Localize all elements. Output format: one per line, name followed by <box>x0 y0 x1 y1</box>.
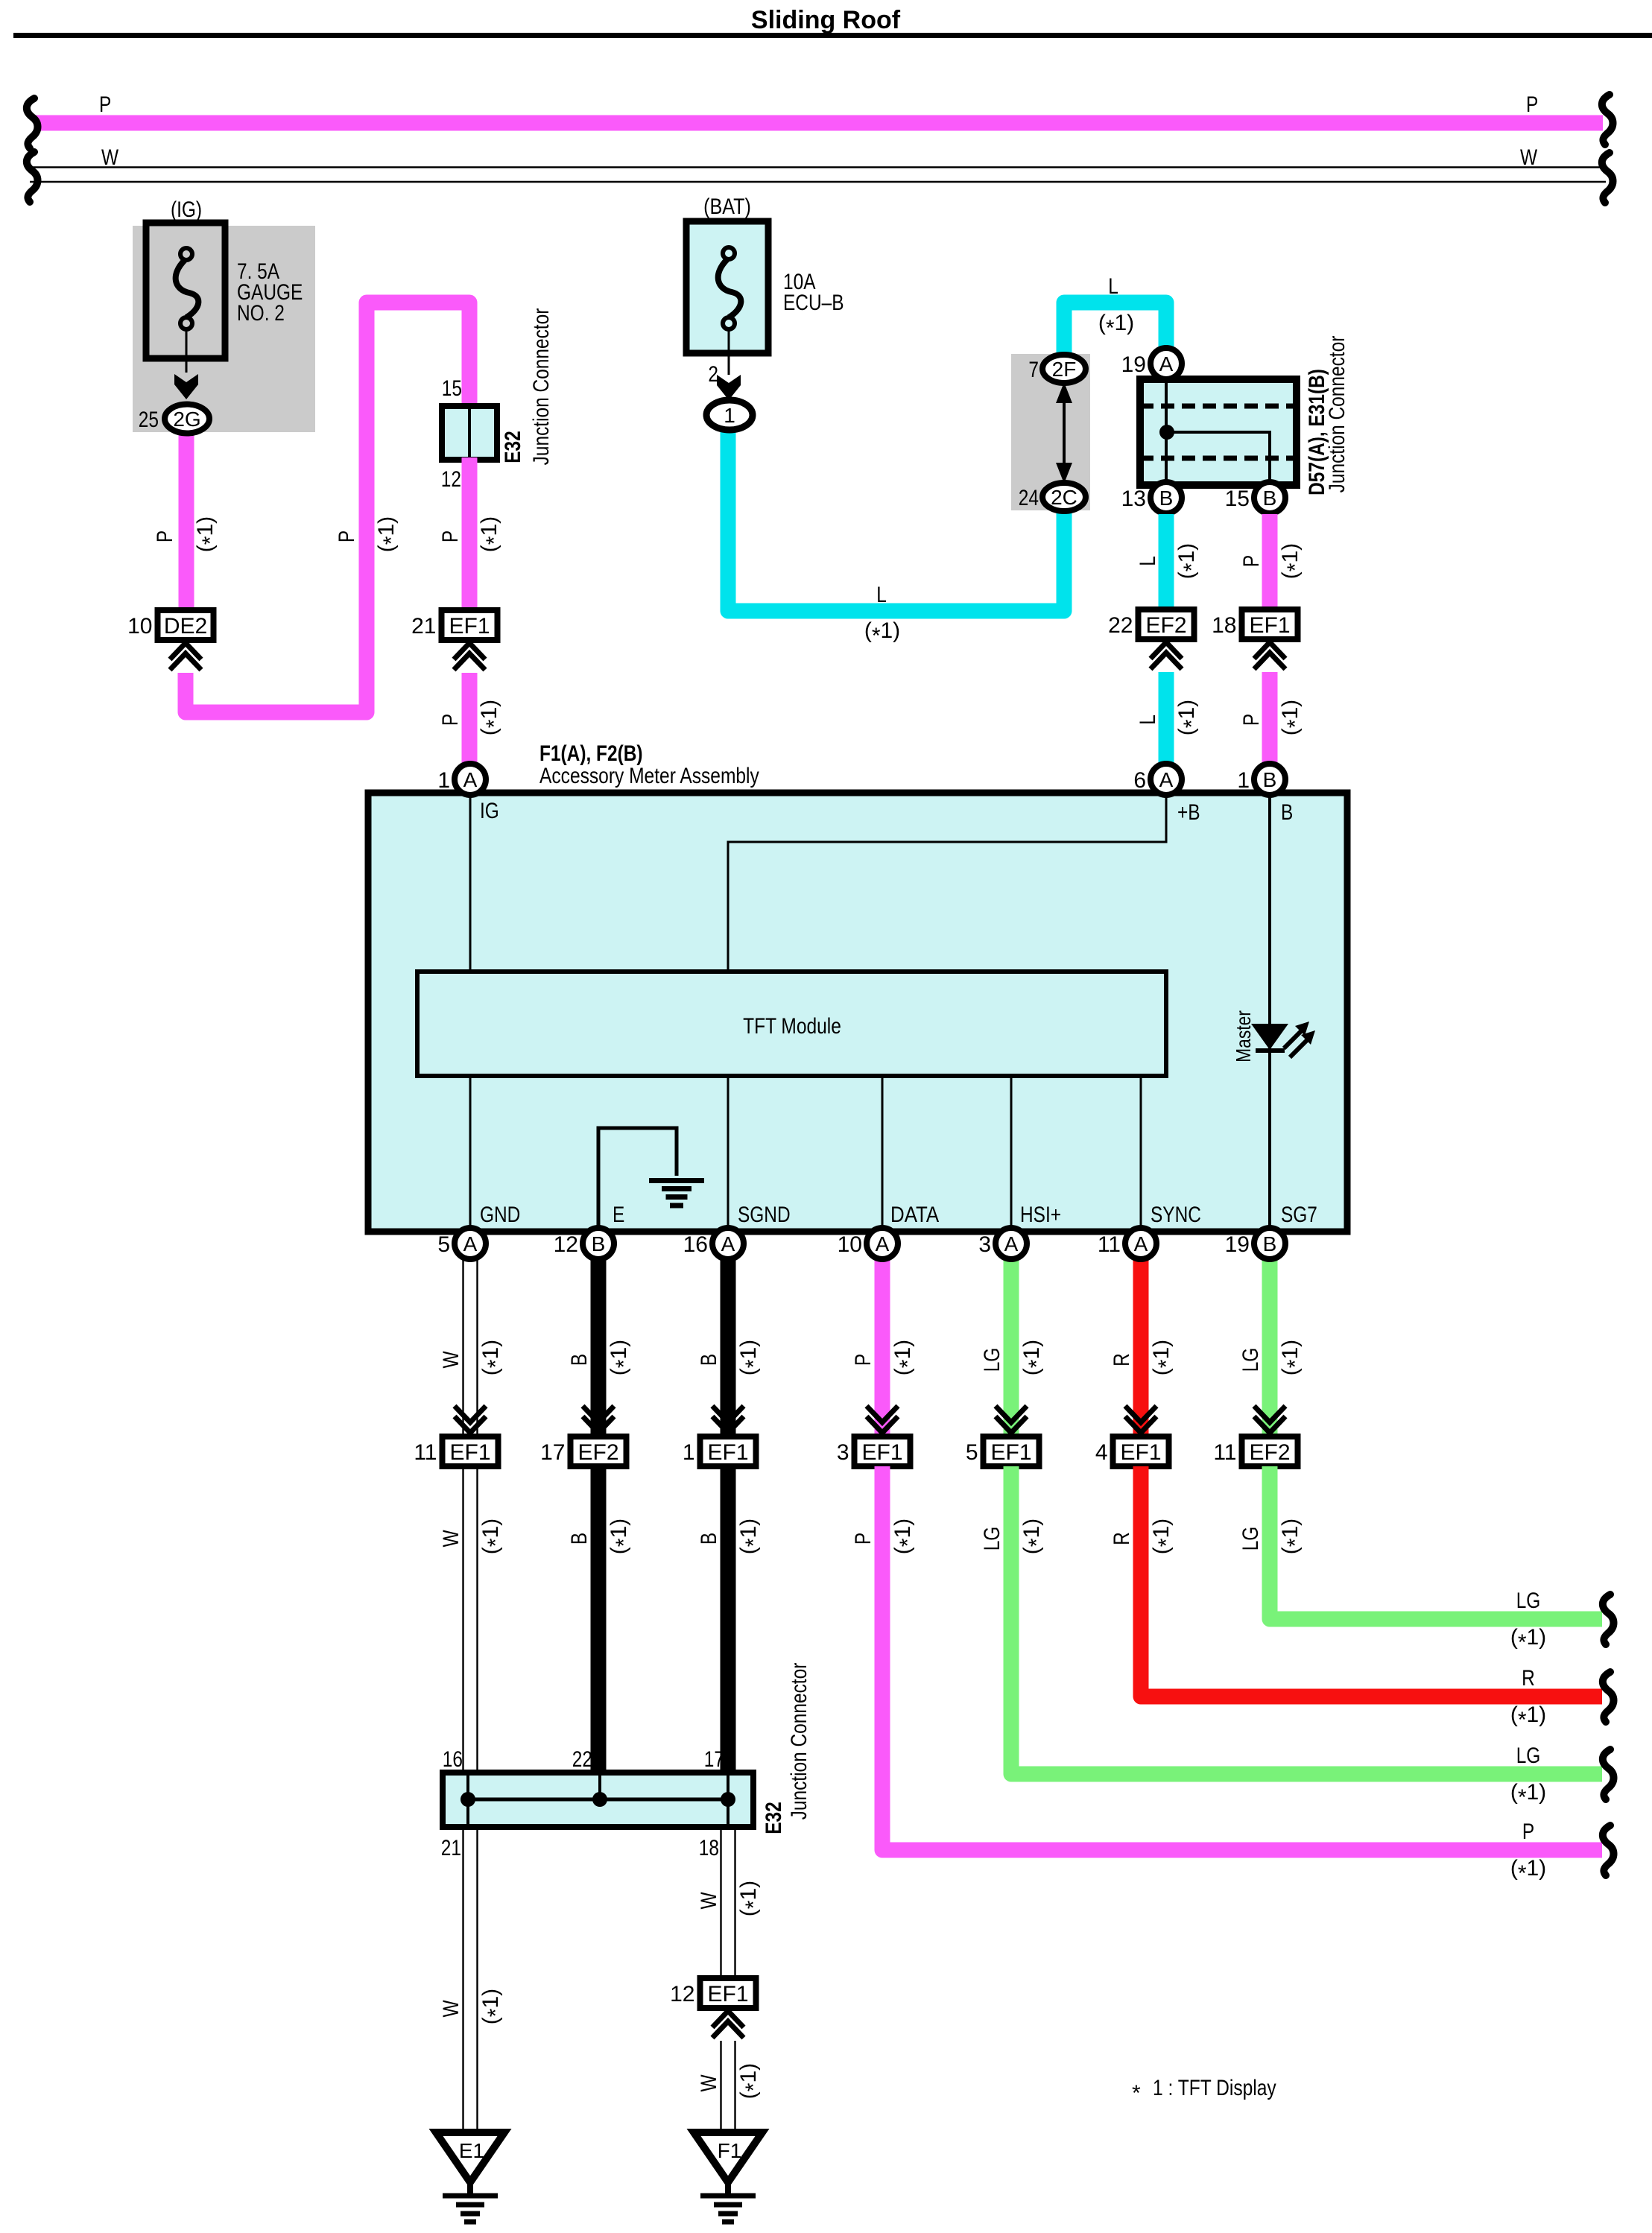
svg-text:(*1): (*1) <box>736 1518 766 1554</box>
wire: P from DATA 10A down <box>875 1259 890 1437</box>
svg-text:3: 3 <box>837 1440 849 1465</box>
svg-text:7: 7 <box>1028 358 1039 382</box>
internal wire HSI+ <box>1010 1076 1013 1228</box>
pin 1 A (IG) <box>455 764 486 795</box>
ground E1 <box>436 2132 504 2182</box>
svg-text:(*1): (*1) <box>607 1518 636 1554</box>
svg-text:W: W <box>1520 145 1538 170</box>
chevron into EF row x1184 <box>867 1406 898 1422</box>
svg-text:L: L <box>1108 274 1118 299</box>
svg-text:E32: E32 <box>501 431 525 463</box>
gray panel (IG fuse block) <box>133 226 315 432</box>
svg-text:A: A <box>1134 1232 1148 1255</box>
svg-text:IG: IG <box>480 799 499 823</box>
chevron into EF row x1531 <box>1125 1406 1156 1422</box>
svg-text:B: B <box>1159 487 1174 510</box>
chevron below EF2-22 <box>1151 642 1182 659</box>
svg-text:EF1: EF1 <box>449 614 490 639</box>
wire: pink EF1-18 to meter pin 1B <box>1262 672 1278 767</box>
internal wire IG to TFT <box>469 795 472 972</box>
svg-text:E32: E32 <box>762 1802 786 1834</box>
connector EF2 (17) <box>571 1437 627 1466</box>
connector EF1 (1) <box>700 1437 756 1466</box>
continuation squiggle pigtail y2381 <box>1603 1749 1614 1799</box>
svg-text:LG: LG <box>1516 1589 1541 1613</box>
pin 2G (25) oval <box>165 405 209 434</box>
wire: B to E32 junction (17) <box>721 1466 736 1773</box>
svg-text:SYNC: SYNC <box>1151 1203 1201 1227</box>
pin A (19) <box>1151 348 1182 379</box>
svg-text:(*1): (*1) <box>1278 700 1308 735</box>
svg-text:18: 18 <box>1212 613 1236 638</box>
dashed row 1 <box>1140 404 1297 409</box>
svg-text:EF1: EF1 <box>990 1440 1031 1465</box>
svg-text:A: A <box>1159 768 1174 791</box>
E32 internal stub 17 <box>727 1776 730 1799</box>
wire: cyan 2F up right down to A19 <box>1064 303 1166 358</box>
connector EF1 (3) <box>855 1437 911 1466</box>
continuation squiggle W bus left <box>27 152 38 202</box>
svg-text:L: L <box>1136 715 1160 725</box>
internal wire SYNC <box>1140 1076 1142 1228</box>
svg-text:1 : TFT Display: 1 : TFT Display <box>1153 2076 1276 2100</box>
svg-text:HSI+: HSI+ <box>1020 1203 1061 1227</box>
fuse element (BAT) <box>723 247 735 259</box>
svg-text:10: 10 <box>127 614 152 639</box>
pin B (13) <box>1151 482 1182 513</box>
wire: pink EF1-21 to meter pin 1A <box>462 673 478 767</box>
svg-text:Master: Master <box>1232 1010 1255 1062</box>
svg-text:P: P <box>1239 555 1264 567</box>
svg-text:ECU–B: ECU–B <box>783 291 844 315</box>
connector EF1 (4) <box>1113 1437 1169 1466</box>
svg-text:(BAT): (BAT) <box>703 194 751 219</box>
internal wire DATA <box>882 1076 884 1228</box>
connector EF1 (12) <box>700 1978 756 2008</box>
pin B (15) <box>1254 482 1285 513</box>
svg-text:B: B <box>592 1232 606 1255</box>
svg-text:5: 5 <box>437 1232 450 1257</box>
junction dot 16/21 <box>461 1792 475 1807</box>
E32 internal bus line <box>468 1798 728 1802</box>
dashed row 2 <box>1140 456 1297 461</box>
wire: cyan from pin 1 down right up to 2C <box>728 430 1064 611</box>
chevron into EF row x803 <box>583 1406 614 1422</box>
svg-text:16: 16 <box>683 1232 708 1257</box>
wire: R from SYNC 11A down <box>1133 1259 1149 1437</box>
svg-text:(*1): (*1) <box>477 700 507 735</box>
svg-text:(*1): (*1) <box>1278 1340 1308 1375</box>
svg-text:13: 13 <box>1121 487 1146 511</box>
wire: W bus (white, top) <box>30 166 1606 168</box>
svg-text:15: 15 <box>442 376 462 401</box>
svg-text:(*1): (*1) <box>478 1518 508 1554</box>
svg-text:W: W <box>697 2074 721 2092</box>
svg-text:P: P <box>153 530 177 542</box>
svg-text:A: A <box>876 1232 890 1255</box>
svg-text:2G: 2G <box>173 408 200 431</box>
continuation squiggle P bus left <box>27 98 38 148</box>
svg-text:(*1): (*1) <box>1019 1518 1049 1554</box>
svg-text:A: A <box>463 1232 478 1255</box>
svg-text:LG: LG <box>1238 1527 1263 1551</box>
svg-text:SG7: SG7 <box>1281 1203 1317 1227</box>
svg-text:P: P <box>851 1354 876 1366</box>
chevron below EF1-18 <box>1254 642 1285 659</box>
pin 6 A (+B) <box>1151 764 1182 795</box>
wire: pink E32-12 down to EF1-21 <box>462 457 478 612</box>
svg-text:P: P <box>99 92 111 117</box>
fuse element (IG) <box>180 248 192 260</box>
continuation squiggle pigtail y2483 <box>1603 1825 1614 1875</box>
svg-text:(*1): (*1) <box>890 1518 920 1554</box>
svg-text:LG: LG <box>980 1348 1004 1372</box>
arrow into pin 2G <box>174 374 198 399</box>
svg-text:B: B <box>697 1354 721 1366</box>
wire: cyan B13 down to EF2-22 <box>1159 514 1174 612</box>
svg-text:P: P <box>438 714 463 726</box>
svg-text:L: L <box>876 583 887 607</box>
wire: LG from HSI+ 3A down <box>1004 1259 1019 1437</box>
svg-text:B: B <box>1263 487 1277 510</box>
svg-text:EF2: EF2 <box>1145 613 1186 638</box>
svg-text:24: 24 <box>1019 486 1039 510</box>
internal wire GND <box>469 1076 472 1228</box>
svg-text:F1: F1 <box>718 2139 742 2162</box>
chevron below EF1-21 <box>454 643 485 659</box>
connector EF1 (18) <box>1242 609 1298 639</box>
bottom pin 19 B <box>1254 1228 1285 1259</box>
svg-text:19: 19 <box>1121 352 1146 377</box>
svg-text:(*1): (*1) <box>1510 1703 1546 1732</box>
svg-text:11: 11 <box>1098 1232 1121 1257</box>
svg-text:2: 2 <box>708 362 718 387</box>
svg-text:B: B <box>1263 1232 1277 1255</box>
svg-text:EF1: EF1 <box>1249 613 1290 638</box>
connector EF1 (5) <box>984 1437 1039 1466</box>
wire: cyan EF2-22 to meter pin 6A <box>1159 672 1174 767</box>
connector EF1 (11) <box>443 1437 499 1466</box>
E32 internal stub 16 <box>466 1776 469 1799</box>
junction connector E32 (top) box <box>442 406 497 460</box>
wire: LG pigtail right (from 19B) <box>1270 1466 1602 1619</box>
svg-text:15: 15 <box>1225 487 1250 511</box>
svg-text:17: 17 <box>704 1747 724 1772</box>
junction dot 17/18 <box>721 1792 735 1807</box>
svg-text:EF2: EF2 <box>577 1440 618 1465</box>
E32 internal stub 22 <box>598 1776 601 1799</box>
wire: B to E32 junction (22) <box>591 1466 607 1773</box>
gray panel (2F/2C connector) <box>1011 354 1090 510</box>
internal wire B (through LED) <box>1268 795 1271 1228</box>
svg-text:P: P <box>851 1533 876 1545</box>
svg-text:(*1): (*1) <box>1278 543 1308 579</box>
svg-text:4: 4 <box>1095 1440 1108 1465</box>
svg-text:(*1): (*1) <box>1278 1518 1308 1554</box>
svg-text:+B: +B <box>1177 800 1200 825</box>
svg-text:6: 6 <box>1133 768 1146 793</box>
connector EF1 (21) <box>442 610 498 640</box>
wire: B from E 12B down <box>591 1259 607 1437</box>
junction connector D57(A),E31(B) box <box>1140 379 1297 485</box>
svg-text:EF1: EF1 <box>861 1440 902 1465</box>
chevron into EF row x1704 <box>1254 1406 1285 1422</box>
pin 1 B (B) <box>1254 764 1285 795</box>
wire: fuse to pin 2G <box>186 329 188 373</box>
wire: R pigtail right <box>1141 1466 1602 1697</box>
svg-text:EF1: EF1 <box>1120 1440 1161 1465</box>
continuation squiggle P bus right <box>1602 95 1613 145</box>
svg-text:2C: 2C <box>1051 486 1077 509</box>
svg-text:22: 22 <box>1108 613 1133 638</box>
svg-text:L: L <box>1136 556 1160 566</box>
TFT Module box <box>417 972 1166 1076</box>
svg-text:DE2: DE2 <box>164 614 207 639</box>
svg-text:B: B <box>697 1533 721 1545</box>
svg-text:12: 12 <box>554 1232 578 1257</box>
svg-text:1: 1 <box>724 404 735 427</box>
svg-text:(*1): (*1) <box>1174 700 1204 735</box>
junction dot <box>1159 425 1174 440</box>
svg-text:B: B <box>567 1354 592 1366</box>
wire: W from 18 to EF1-12 <box>720 1827 721 1978</box>
svg-text:21: 21 <box>411 614 436 639</box>
svg-text:A: A <box>1004 1232 1019 1255</box>
svg-text:1: 1 <box>683 1440 695 1465</box>
continuation squiggle pigtail y2277 <box>1603 1672 1614 1722</box>
wire: pink DE2 to E32 pin 15 (down, right, up, right, down) <box>186 303 469 712</box>
svg-text:E1: E1 <box>459 2139 484 2162</box>
svg-text:Junction Connector: Junction Connector <box>529 308 554 466</box>
pin 2F (7) oval <box>1042 355 1086 383</box>
svg-text:TFT Module: TFT Module <box>743 1014 841 1039</box>
svg-text:P: P <box>438 530 463 542</box>
wire: W from EF1-12 to ground F1 <box>720 2041 721 2132</box>
internal wire +B to TFT <box>728 795 1166 972</box>
chevron into EF row x631 <box>455 1406 486 1422</box>
svg-text:F1(A), F2(B): F1(A), F2(B) <box>539 741 643 766</box>
svg-text:Accessory Meter Assembly: Accessory Meter Assembly <box>539 764 759 788</box>
wire: LG from SG7 19B down <box>1262 1259 1278 1437</box>
chevron into EF row x977 <box>712 1406 744 1422</box>
wire: P pigtail right <box>882 1466 1602 1850</box>
chevron below DE2 <box>170 643 201 659</box>
svg-text:(*1): (*1) <box>1510 1780 1546 1810</box>
svg-text:R: R <box>1522 1666 1535 1691</box>
junction connector E32 (bottom) box <box>443 1773 753 1827</box>
svg-text:5: 5 <box>966 1440 978 1465</box>
wire: W from GND 5A down <box>462 1259 463 1437</box>
bottom pin 16 A <box>712 1228 744 1259</box>
svg-text:W: W <box>439 1351 463 1369</box>
svg-text:W: W <box>439 1530 463 1548</box>
svg-text:1: 1 <box>437 768 450 793</box>
svg-text:(*1): (*1) <box>1098 311 1134 341</box>
svg-text:W: W <box>697 1892 721 1910</box>
svg-text:(*1): (*1) <box>1149 1518 1179 1554</box>
svg-text:17: 17 <box>540 1440 565 1465</box>
svg-text:25: 25 <box>139 408 159 432</box>
fuse 10A ECU-B box <box>686 221 768 353</box>
svg-text:(*1): (*1) <box>478 1989 508 2024</box>
svg-text:A: A <box>1159 352 1174 376</box>
wire: LG pigtail right (from 3A) <box>1011 1466 1602 1774</box>
svg-text:LG: LG <box>1238 1348 1263 1372</box>
svg-text:1: 1 <box>1237 768 1250 793</box>
Accessory Meter Assembly box <box>368 793 1347 1232</box>
svg-text:SGND: SGND <box>738 1203 791 1227</box>
svg-text:21: 21 <box>441 1836 461 1860</box>
svg-text:11: 11 <box>414 1440 437 1465</box>
svg-text:3: 3 <box>978 1232 991 1257</box>
svg-text:(*1): (*1) <box>374 516 404 552</box>
svg-text:(*1): (*1) <box>1149 1340 1179 1375</box>
svg-text:(*1): (*1) <box>1019 1340 1049 1375</box>
bottom pin 3 A <box>996 1228 1027 1259</box>
bottom pin 11 A <box>1125 1228 1156 1259</box>
svg-text:Junction Connector: Junction Connector <box>787 1663 811 1820</box>
svg-text:A: A <box>463 768 478 791</box>
svg-text:P: P <box>1526 92 1538 117</box>
internal wire E to chassis ground <box>598 1128 677 1228</box>
svg-text:W: W <box>101 145 119 170</box>
svg-text:19: 19 <box>1225 1232 1250 1257</box>
bottom pin 10 A <box>867 1228 898 1259</box>
svg-text:W: W <box>439 2000 463 2018</box>
wire: W to E32 junction <box>462 1466 463 1773</box>
svg-text:(*1): (*1) <box>193 516 223 552</box>
continuation squiggle pigtail y2173 <box>1603 1594 1614 1644</box>
svg-text:12: 12 <box>441 467 461 492</box>
svg-text:GND: GND <box>480 1203 520 1227</box>
svg-text:DATA: DATA <box>890 1203 939 1227</box>
svg-text:EF1: EF1 <box>449 1440 490 1465</box>
svg-text:R: R <box>1110 1353 1134 1366</box>
svg-text:P: P <box>335 530 359 542</box>
chevron into EF row x1357 <box>996 1406 1027 1422</box>
continuation squiggle W bus right <box>1602 153 1613 203</box>
double arrow between 2F and 2C <box>1063 382 1066 484</box>
top rule <box>13 33 1652 38</box>
svg-text:11: 11 <box>1213 1440 1236 1465</box>
wire: P bus (pink, top) <box>34 115 1603 131</box>
svg-text:(*1): (*1) <box>864 618 900 648</box>
E32 internal stub 18 <box>727 1799 730 1825</box>
svg-text:(*1): (*1) <box>478 1340 508 1375</box>
svg-text:22: 22 <box>572 1747 592 1772</box>
svg-text:(*1): (*1) <box>607 1340 636 1375</box>
svg-text:Sliding Roof: Sliding Roof <box>751 6 901 34</box>
svg-text:(*1): (*1) <box>736 1340 766 1375</box>
ground F1 <box>694 2132 762 2182</box>
svg-text:*: * <box>1132 2081 1141 2106</box>
connector EF2 (22) <box>1139 609 1194 639</box>
svg-text:12: 12 <box>670 1982 694 2006</box>
svg-text:EF2: EF2 <box>1249 1440 1290 1465</box>
svg-text:LG: LG <box>1516 1743 1541 1768</box>
wire: P from 2G down to DE2 (pink) <box>179 431 194 612</box>
LED (Master) <box>1251 1024 1288 1050</box>
svg-text:EF1: EF1 <box>707 1440 748 1465</box>
bottom pin 12 B <box>583 1228 614 1259</box>
junction dot 22 <box>592 1792 607 1807</box>
connector DE2 (10) <box>158 610 214 640</box>
wire: B from SGND 16A down <box>721 1259 736 1437</box>
svg-text:NO. 2: NO. 2 <box>237 301 285 326</box>
connector EF2 (11) <box>1242 1437 1298 1466</box>
svg-text:B: B <box>1263 768 1277 791</box>
svg-text:(*1): (*1) <box>890 1340 920 1375</box>
svg-text:16: 16 <box>443 1747 463 1772</box>
internal wire A19 to B13 <box>1165 379 1168 485</box>
wire: W from 21 to ground E1 <box>462 1827 463 2132</box>
svg-text:2F: 2F <box>1052 358 1077 381</box>
svg-text:P: P <box>1522 1819 1534 1844</box>
E32 internal stub 21 <box>466 1799 469 1825</box>
svg-text:E: E <box>613 1203 624 1227</box>
svg-text:P: P <box>1239 714 1264 726</box>
wire: fuse to pin 1 <box>728 329 730 375</box>
internal wire junction to B15 <box>1166 432 1270 485</box>
svg-text:EF1: EF1 <box>707 1982 748 2006</box>
svg-text:B: B <box>1281 800 1293 825</box>
svg-text:(*1): (*1) <box>1510 1856 1546 1886</box>
wire: pink B15 down to EF1-18 <box>1262 514 1278 612</box>
chevron below EF1-12 <box>712 2011 744 2027</box>
svg-text:10: 10 <box>838 1232 862 1257</box>
arrow into pin 1 <box>717 375 741 400</box>
svg-text:R: R <box>1110 1532 1134 1545</box>
pin 1 oval (BAT) <box>706 400 753 430</box>
svg-text:A: A <box>721 1232 735 1255</box>
svg-text:LG: LG <box>980 1527 1004 1551</box>
svg-text:Junction Connector: Junction Connector <box>1325 336 1349 493</box>
svg-text:(*1): (*1) <box>736 2063 766 2099</box>
pin 2C (24) oval <box>1042 483 1086 511</box>
svg-text:(*1): (*1) <box>477 516 507 552</box>
internal wire SGND <box>727 1076 730 1228</box>
chassis ground symbol (inside box) <box>649 1178 704 1183</box>
svg-text:(*1): (*1) <box>736 1881 766 1916</box>
svg-text:(*1): (*1) <box>1174 543 1204 579</box>
svg-text:18: 18 <box>699 1836 719 1860</box>
fuse F: 7.5A GAUGE NO.2 box <box>146 223 225 358</box>
svg-text:(*1): (*1) <box>1510 1625 1546 1655</box>
svg-text:(IG): (IG) <box>171 197 202 222</box>
svg-text:B: B <box>567 1533 592 1545</box>
bottom pin 5 A <box>455 1228 486 1259</box>
